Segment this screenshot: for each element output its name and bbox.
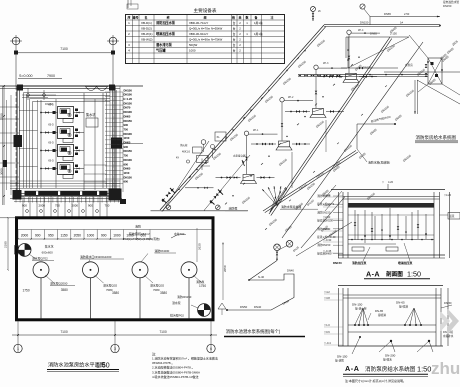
svg-text:G: G	[90, 269, 92, 272]
svg-text:1750: 1750	[23, 289, 30, 293]
svg-text:ZP-4: ZP-4	[358, 29, 364, 32]
svg-text:DN-200: DN-200	[385, 354, 396, 358]
svg-text:2000: 2000	[72, 203, 79, 207]
svg-text:Q=30L/s H=70m N=55kW: Q=30L/s H=70m N=55kW	[189, 27, 222, 31]
svg-text:水位700: 水位700	[174, 232, 185, 236]
svg-text:喷淋加压水泵: 喷淋加压水泵	[156, 31, 176, 36]
svg-text:A-A: A-A	[345, 364, 360, 373]
svg-text:Q=30L/s H=90m N=75kW: Q=30L/s H=90m N=75kW	[189, 38, 222, 42]
svg-text:G: G	[40, 269, 42, 272]
svg-text:集水坑: 集水坑	[45, 243, 54, 248]
svg-text:接喷淋: 接喷淋	[378, 313, 386, 317]
svg-text:▽-0.45: ▽-0.45	[323, 249, 332, 253]
svg-text:编号: 编号	[132, 15, 138, 20]
svg-text:接-喷淋: 接-喷淋	[399, 305, 408, 309]
svg-text:1150: 1150	[61, 233, 68, 237]
svg-text:3000: 3000	[0, 168, 4, 175]
svg-text:750: 750	[124, 154, 129, 158]
svg-text:900: 900	[124, 145, 129, 149]
svg-text:DN-150: DN-150	[337, 355, 348, 359]
svg-text:900: 900	[88, 203, 93, 207]
svg-text:50QW: 50QW	[189, 43, 197, 47]
svg-text:DN65: DN65	[384, 12, 391, 16]
svg-text:4.20: 4.20	[388, 180, 394, 184]
svg-text:XB-D: XB-D	[48, 124, 54, 127]
svg-text:消防泵房给水系统图: 消防泵房给水系统图	[416, 134, 457, 141]
svg-text:▽0.6: ▽0.6	[324, 330, 330, 334]
svg-text:潜水排污泵: 潜水排污泵	[156, 42, 173, 47]
svg-text:ZP-2: ZP-2	[288, 96, 294, 99]
svg-text:XBD-30-90-HY: XBD-30-90-HY	[189, 32, 208, 36]
svg-text:G: G	[188, 269, 190, 272]
svg-text:zhu: zhu	[431, 359, 460, 378]
svg-text:DN-65: DN-65	[375, 309, 384, 313]
svg-text:DN150: DN150	[124, 101, 133, 105]
svg-text:750: 750	[124, 127, 129, 131]
svg-text:消防DN150: 消防DN150	[317, 243, 331, 247]
svg-text:7100: 7100	[60, 330, 68, 334]
svg-text:XB-W(1): XB-W(1)	[141, 32, 153, 36]
svg-text:DN70: DN70	[124, 106, 131, 110]
svg-text:1用1备: 1用1备	[254, 32, 263, 36]
svg-text:消防: 消防	[135, 224, 141, 229]
svg-text:▽3.8: ▽3.8	[324, 296, 330, 300]
svg-text:台: 台	[233, 27, 236, 31]
svg-text:潜水泵Q02: 潜水泵Q02	[150, 282, 165, 287]
svg-text:集水坑: 集水坑	[86, 112, 96, 117]
svg-text:水箱补水: 水箱补水	[443, 334, 454, 338]
svg-text:1150: 1150	[124, 171, 130, 175]
svg-text:1:50: 1:50	[96, 363, 110, 370]
svg-text:台: 台	[233, 43, 236, 47]
svg-text:1:50: 1:50	[407, 270, 421, 279]
svg-text:DN100: DN100	[124, 93, 133, 97]
svg-text:1用1备: 1用1备	[254, 21, 263, 25]
svg-text:3580: 3580	[61, 288, 68, 292]
svg-text:DN150: DN150	[333, 261, 342, 265]
svg-text:消防DN200: 消防DN200	[155, 248, 170, 253]
svg-text:消防泵: 消防泵	[229, 205, 238, 210]
svg-text:DN150: DN150	[363, 66, 372, 70]
svg-text:N-40: N-40	[258, 275, 265, 279]
svg-text:7080: 7080	[153, 288, 160, 292]
svg-text:消防DN150: 消防DN150	[177, 295, 192, 299]
svg-text:接喷淋DN100: 接喷淋DN100	[317, 219, 333, 223]
svg-text:1000: 1000	[113, 233, 121, 237]
svg-text:排污泵P02: 排污泵P02	[170, 313, 184, 318]
svg-text:2620: 2620	[198, 243, 202, 250]
svg-text:XB-D: XB-D	[48, 142, 54, 145]
svg-text:▽-0.30: ▽-0.30	[323, 238, 332, 242]
svg-text:XB-D: XB-D	[48, 160, 54, 163]
svg-text:消防泵房给水系统图: 消防泵房给水系统图	[365, 365, 416, 373]
svg-text:▽4.20: ▽4.20	[444, 193, 452, 197]
svg-text:900: 900	[124, 162, 129, 166]
svg-text:注: 注	[270, 15, 273, 20]
svg-text:数: 数	[244, 15, 248, 20]
svg-text:A-A: A-A	[366, 270, 380, 279]
svg-text:台: 台	[233, 49, 236, 53]
svg-text:单: 单	[238, 15, 241, 20]
svg-text:2.50: 2.50	[404, 12, 410, 16]
svg-text:水泵接合器: 水泵接合器	[233, 154, 246, 158]
svg-text:潜水泵: 潜水泵	[172, 300, 181, 305]
svg-text:4.吸水坑做法05S804-P67B-13做法: 4.吸水坑做法05S804-P67B-13做法	[152, 374, 199, 379]
svg-text:接市政给水管: 接市政给水管	[443, 0, 459, 4]
svg-text:3580: 3580	[160, 291, 167, 295]
svg-text:DN65: DN65	[124, 167, 131, 171]
svg-text:750: 750	[55, 203, 60, 207]
svg-text:有效容积357m³: 有效容积357m³	[129, 231, 150, 236]
svg-text:1000: 1000	[189, 49, 196, 53]
svg-text:4X: 4X	[176, 157, 179, 160]
svg-text:潜水泵Q2000: 潜水泵Q2000	[50, 281, 68, 286]
svg-text:1: 1	[17, 347, 19, 351]
svg-text:接-消防: 接-消防	[335, 359, 344, 363]
svg-text:40X1.6: 40X1.6	[182, 151, 191, 154]
svg-text:称: 称	[166, 15, 169, 20]
svg-text:▽1.0: ▽1.0	[324, 323, 330, 327]
svg-text:消防加压水泵: 消防加压水泵	[156, 20, 176, 25]
svg-text:▽4.2: ▽4.2	[324, 290, 330, 294]
svg-text:▽-0.4: ▽-0.4	[324, 341, 331, 345]
svg-text:3: 3	[114, 347, 116, 351]
svg-text:XB-W(2): XB-W(2)	[141, 38, 153, 42]
svg-text:05S804-P67B 。: 05S804-P67B 。	[152, 361, 175, 365]
svg-text:2050: 2050	[74, 233, 82, 237]
svg-text:消防吸水口DN200x1000: 消防吸水口DN200x1000	[80, 254, 112, 259]
svg-text:DN40: DN40	[287, 269, 294, 273]
svg-text:XBD-30-70-HY: XBD-30-70-HY	[189, 21, 208, 25]
svg-text:剖面图: 剖面图	[386, 270, 403, 278]
svg-text:S=0.000: S=0.000	[19, 74, 33, 78]
svg-text:3.水泵基础做法05S804-P67B-5M6A: 3.水泵基础做法05S804-P67B-5M6A	[152, 369, 200, 374]
svg-text:2000: 2000	[39, 203, 46, 207]
svg-text:14.2(L)x7.1(W)x(2.05)m(有效): 14.2(L)x7.1(W)x(2.05)m(有效)	[123, 237, 160, 241]
svg-text:1:50: 1:50	[417, 365, 431, 374]
svg-text:DN100: DN100	[124, 110, 133, 114]
svg-text:XB-D(2): XB-D(2)	[141, 27, 152, 31]
svg-text:DN150: DN150	[443, 4, 452, 8]
svg-text:注:本图尺寸以mm计,标高以m计,详见总说明。: 注:本图尺寸以mm计,标高以m计,详见总说明。	[345, 378, 406, 383]
svg-text:DN50: DN50	[240, 305, 248, 309]
svg-text:2.水池爬梯做法05S804-P478 。: 2.水池爬梯做法05S804-P478 。	[152, 365, 195, 370]
svg-text:名: 名	[144, 15, 147, 20]
svg-text:2350: 2350	[0, 113, 4, 120]
svg-text:DN-50: DN-50	[444, 301, 452, 305]
svg-text:DN65: DN65	[124, 141, 131, 145]
svg-text:DN150: DN150	[124, 175, 133, 179]
svg-text:2180: 2180	[4, 241, 8, 248]
svg-text:消防加压泵: 消防加压泵	[352, 260, 367, 265]
svg-text:消火栓: 消火栓	[180, 143, 188, 147]
svg-text:DN150: DN150	[124, 119, 133, 123]
svg-text:气压罐: 气压罐	[156, 48, 166, 53]
svg-text:接-吸水: 接-吸水	[383, 358, 392, 362]
svg-text:2000: 2000	[21, 233, 29, 237]
svg-text:900: 900	[124, 180, 129, 184]
svg-text:h=1.20: h=1.20	[124, 97, 133, 101]
svg-text:900: 900	[101, 233, 107, 237]
svg-text:DN65: DN65	[124, 114, 131, 118]
svg-text:XB-D(1): XB-D(1)	[141, 21, 152, 25]
svg-text:消防DN150: 消防DN150	[317, 210, 331, 214]
svg-text:规: 规	[202, 15, 206, 20]
svg-text:1150: 1150	[124, 136, 130, 140]
svg-text:台: 台	[233, 21, 236, 25]
svg-text:DN150: DN150	[124, 88, 133, 92]
svg-text:1000: 1000	[87, 233, 95, 237]
svg-text:消防水池潜水泵系统图(每个): 消防水池潜水泵系统图(每个)	[226, 328, 281, 335]
svg-text:DN65: DN65	[370, 32, 377, 36]
svg-text:XB-D: XB-D	[48, 104, 54, 107]
svg-text:序: 序	[126, 15, 130, 20]
svg-text:DN150: DN150	[360, 21, 369, 25]
svg-text:▽2.50: ▽2.50	[323, 215, 331, 219]
svg-text:台: 台	[233, 32, 236, 36]
svg-text:▽4.20: ▽4.20	[323, 193, 331, 197]
svg-text:DN150: DN150	[124, 149, 133, 153]
svg-text:900: 900	[35, 233, 41, 237]
svg-text:7100: 7100	[159, 330, 167, 334]
svg-text:DN100: DN100	[124, 158, 133, 162]
svg-text:900: 900	[124, 123, 129, 127]
svg-text:消防水箱(见结施): 消防水箱(见结施)	[368, 160, 390, 165]
svg-text:2050: 2050	[223, 265, 227, 272]
svg-text:潜水泵Q02: 潜水泵Q02	[103, 282, 118, 287]
svg-text:600x600: 600x600	[42, 251, 53, 255]
svg-text:接-消火栓: 接-消火栓	[355, 307, 367, 311]
svg-text:主要设备表: 主要设备表	[194, 7, 217, 14]
svg-text:溢流: 溢流	[449, 214, 455, 218]
svg-text:7100: 7100	[60, 47, 68, 51]
svg-text:1750: 1750	[199, 284, 206, 288]
svg-text:ZP-1: ZP-1	[253, 129, 259, 132]
svg-text:ZP-3: ZP-3	[323, 62, 329, 65]
svg-text:1.消防水池有效容积357m³ 。钢筋混凝土水池做法: 1.消防水池有效容积357m³ 。钢筋混凝土水池做法	[152, 356, 218, 361]
svg-text:6: 6	[210, 347, 212, 351]
svg-text:▽3.80: ▽3.80	[323, 203, 331, 207]
svg-text:DN-65: DN-65	[396, 301, 405, 305]
svg-text:DN40: DN40	[254, 305, 262, 309]
svg-text:DN-150: DN-150	[352, 303, 363, 307]
svg-text:950: 950	[48, 233, 54, 237]
svg-text:7900: 7900	[47, 74, 55, 78]
svg-text:喷淋加压泵: 喷淋加压泵	[398, 260, 413, 265]
svg-text:XL: XL	[217, 135, 221, 139]
svg-text:潜水泵Q702: 潜水泵Q702	[32, 255, 48, 260]
svg-text:3580: 3580	[112, 291, 119, 295]
svg-text:G: G	[139, 269, 141, 272]
svg-text:DN100: DN100	[124, 132, 133, 136]
svg-text:台: 台	[233, 38, 236, 42]
svg-text:▽2.00: ▽2.00	[323, 227, 331, 231]
